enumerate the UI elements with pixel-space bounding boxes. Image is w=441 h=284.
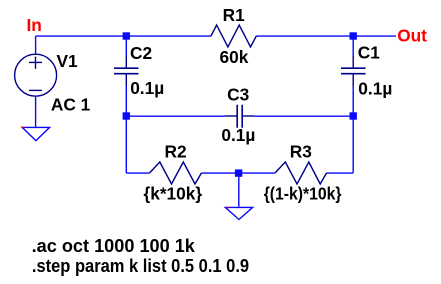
svg-text:Out: Out [397, 25, 427, 45]
svg-text:AC 1: AC 1 [51, 95, 91, 115]
svg-text:R3: R3 [290, 141, 312, 161]
svg-text:C2: C2 [130, 43, 152, 63]
svg-text:{k*10k}: {k*10k} [144, 183, 203, 203]
svg-text:R2: R2 [165, 141, 187, 161]
svg-text:.ac oct 1000 100 1k: .ac oct 1000 100 1k [32, 236, 196, 256]
svg-text:0.1µ: 0.1µ [221, 125, 255, 145]
svg-text:V1: V1 [57, 51, 79, 71]
svg-text:R1: R1 [223, 5, 245, 25]
svg-text:0.1µ: 0.1µ [358, 78, 392, 98]
svg-text:.step param k list 0.5 0.1 0.9: .step param k list 0.5 0.1 0.9 [32, 256, 249, 276]
svg-text:C3: C3 [227, 85, 249, 105]
svg-text:{(1-k)*10k}: {(1-k)*10k} [264, 183, 342, 203]
svg-text:In: In [27, 15, 42, 35]
svg-text:0.1µ: 0.1µ [130, 78, 164, 98]
svg-text:60k: 60k [220, 47, 249, 67]
svg-text:C1: C1 [358, 43, 380, 63]
